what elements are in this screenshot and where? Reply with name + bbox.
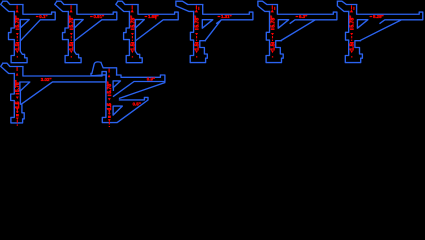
svg-text:1.5: 1.5 (195, 43, 201, 50)
svg-text:1.5: 1.5 (69, 43, 75, 50)
svg-text:1.31″: 1.31″ (221, 14, 233, 19)
svg-text:1.5: 1.5 (270, 43, 276, 50)
svg-text:5.78″: 5.78″ (270, 15, 276, 28)
svg-text:5.78″: 5.78″ (15, 79, 21, 92)
svg-text:1.5: 1.5 (107, 103, 113, 110)
svg-text:5.78″: 5.78″ (130, 15, 136, 28)
svg-text:0.91″: 0.91″ (94, 14, 106, 19)
svg-text:1.68″: 1.68″ (148, 14, 160, 19)
svg-text:0.5″: 0.5″ (133, 101, 142, 106)
svg-text:3.02″: 3.02″ (41, 77, 53, 82)
svg-text:5.78″: 5.78″ (350, 15, 356, 28)
svg-text:5.78″: 5.78″ (107, 81, 113, 94)
svg-text:0.1″: 0.1″ (39, 14, 48, 19)
svg-text:5.78″: 5.78″ (195, 15, 201, 28)
svg-text:5.78″: 5.78″ (15, 15, 21, 28)
svg-text:0.9″: 0.9″ (147, 76, 156, 81)
svg-text:6.3″: 6.3″ (299, 14, 308, 19)
svg-text:1.5: 1.5 (15, 101, 21, 108)
svg-text:5.78″: 5.78″ (69, 15, 75, 28)
svg-text:1.5: 1.5 (15, 43, 21, 50)
svg-text:1.5: 1.5 (130, 43, 136, 50)
svg-text:8.28″: 8.28″ (373, 14, 385, 19)
svg-text:1.5: 1.5 (350, 43, 356, 50)
